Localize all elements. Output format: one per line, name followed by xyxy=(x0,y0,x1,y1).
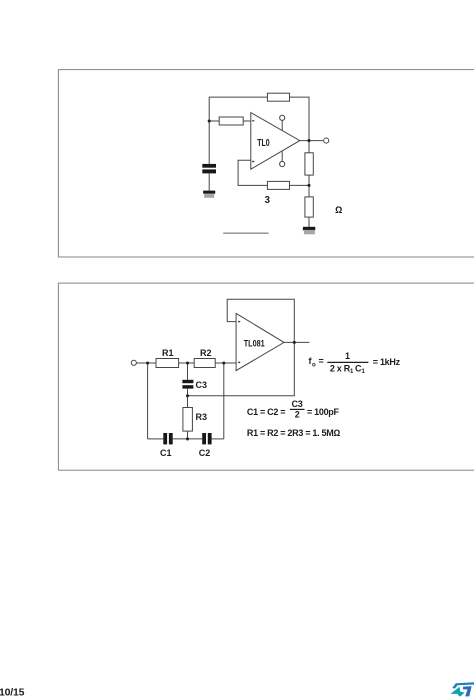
svg-text:o: o xyxy=(312,363,316,369)
svg-text:C1 = C2 =: C1 = C2 = xyxy=(247,407,285,417)
svg-text:C1: C1 xyxy=(160,448,172,458)
resistor top feedback xyxy=(267,93,289,101)
capacitor C3 plate top xyxy=(182,380,193,383)
capacitor C2 plate left xyxy=(202,433,206,444)
svg-text:= 1kHz: = 1kHz xyxy=(373,357,401,367)
op-amp plus input mark xyxy=(252,161,254,162)
resistor bottom feedback xyxy=(267,181,289,189)
op-amp U2 plus input mark xyxy=(238,362,240,363)
junction dot R3 bottom xyxy=(186,437,189,440)
junction dot input node xyxy=(208,119,211,122)
capacitor C2 plate right xyxy=(208,433,212,444)
wire bottom rail segment 1 xyxy=(148,438,164,440)
power pin circle top xyxy=(280,115,285,120)
wire R1 to R2 xyxy=(179,362,195,364)
svg-text:1: 1 xyxy=(345,351,350,361)
wire to right ground xyxy=(308,217,310,227)
svg-text:C3: C3 xyxy=(292,399,303,409)
wire feedback loop xyxy=(188,299,295,396)
ground left bar xyxy=(203,191,215,194)
capacitor C left plate top xyxy=(202,164,216,168)
formula C1C2 xyxy=(247,399,340,420)
svg-text:3: 3 xyxy=(265,194,271,206)
formula fo xyxy=(309,351,401,375)
ST logo S tail xyxy=(458,691,465,696)
input terminal circle xyxy=(131,360,136,365)
gray fraction bar artifact xyxy=(223,232,268,234)
resistor R1 xyxy=(156,359,179,368)
output terminal circle xyxy=(324,138,329,143)
op-amp minus input mark xyxy=(252,120,254,121)
svg-text:TL0: TL0 xyxy=(257,138,270,149)
svg-text:C2: C2 xyxy=(199,448,211,458)
junction dot output xyxy=(293,341,296,344)
ST logo T glyph xyxy=(463,686,472,696)
resistor input left xyxy=(219,117,243,125)
resistor right upper xyxy=(305,153,313,175)
wire input to R1 xyxy=(136,362,156,364)
power pin stem top xyxy=(281,120,283,130)
resistor right lower xyxy=(305,197,313,217)
svg-text:=: = xyxy=(319,356,324,366)
wire right vertical under R2 node xyxy=(223,363,225,439)
wire R2 to op-amp xyxy=(215,362,236,364)
svg-text:10/15: 10/15 xyxy=(0,687,25,699)
ST logo S triangle xyxy=(450,687,460,694)
formula fo fraction bar xyxy=(327,361,368,363)
svg-text:R2: R2 xyxy=(200,348,212,358)
wire output stub xyxy=(284,341,310,343)
wire inverting feedback left leg xyxy=(238,160,267,185)
wire bottom rail segment 2 xyxy=(173,438,203,440)
ground left hatch xyxy=(204,194,214,198)
svg-text:C3: C3 xyxy=(196,380,208,390)
junction dot R2 right xyxy=(222,361,225,364)
junction dot input xyxy=(146,361,149,364)
svg-text:= 100pF: = 100pF xyxy=(307,407,339,417)
wire left cap branch xyxy=(208,121,210,164)
svg-text:1: 1 xyxy=(350,369,354,375)
capacitor C left plate bottom xyxy=(202,169,216,173)
svg-text:Ω: Ω xyxy=(335,205,342,216)
wire top feedback rail xyxy=(209,97,309,153)
wire C3 branch top xyxy=(187,363,189,380)
bottom application box frame xyxy=(58,283,474,470)
svg-text:TL081: TL081 xyxy=(244,339,266,350)
junction dot feedback node xyxy=(307,184,310,187)
wire output stub xyxy=(300,140,323,142)
power pin circle bottom xyxy=(280,161,285,166)
wire input resistor to op-amp xyxy=(209,120,251,122)
wire cap to ground xyxy=(208,173,210,190)
top application box frame xyxy=(58,70,474,257)
wire right rail resistor gap xyxy=(308,175,310,197)
ST logo xyxy=(450,682,474,696)
ground right hatch xyxy=(304,230,315,234)
wire bottom rail segment 3 xyxy=(212,438,224,440)
op-amp U2 triangle TL081 xyxy=(236,313,284,370)
capacitor C1 plate left xyxy=(163,433,167,444)
junction dot R1-R2 xyxy=(186,361,189,364)
svg-text:R1 = R2 = 2R3 = 1. 5MΩ: R1 = R2 = 2R3 = 1. 5MΩ xyxy=(247,428,340,438)
capacitor C3 plate bottom xyxy=(182,385,193,388)
op-amp U1 triangle TL0 xyxy=(251,113,300,170)
wire bottom resistor to right rail xyxy=(290,184,310,186)
capacitor C1 plate right xyxy=(169,433,173,444)
junction dot output node xyxy=(307,139,310,142)
wire left vertical xyxy=(147,363,149,439)
resistor R3 xyxy=(183,408,193,432)
svg-text:1: 1 xyxy=(362,369,366,375)
wire C3 to R3 xyxy=(187,389,189,408)
formula C fraction bar xyxy=(290,408,305,410)
svg-text:2 x R: 2 x R xyxy=(330,364,351,374)
ground right bar xyxy=(303,227,315,231)
power pin stem bottom xyxy=(281,152,283,162)
ST logo top bar xyxy=(452,682,474,689)
svg-text:R3: R3 xyxy=(196,412,208,422)
resistor R2 xyxy=(194,359,215,368)
wire R3 to bottom rail xyxy=(187,431,189,439)
junction dot feedback-C3 xyxy=(186,394,189,397)
svg-text:2: 2 xyxy=(295,410,300,420)
svg-text:R1: R1 xyxy=(162,348,174,358)
op-amp U2 minus input mark xyxy=(238,321,240,322)
